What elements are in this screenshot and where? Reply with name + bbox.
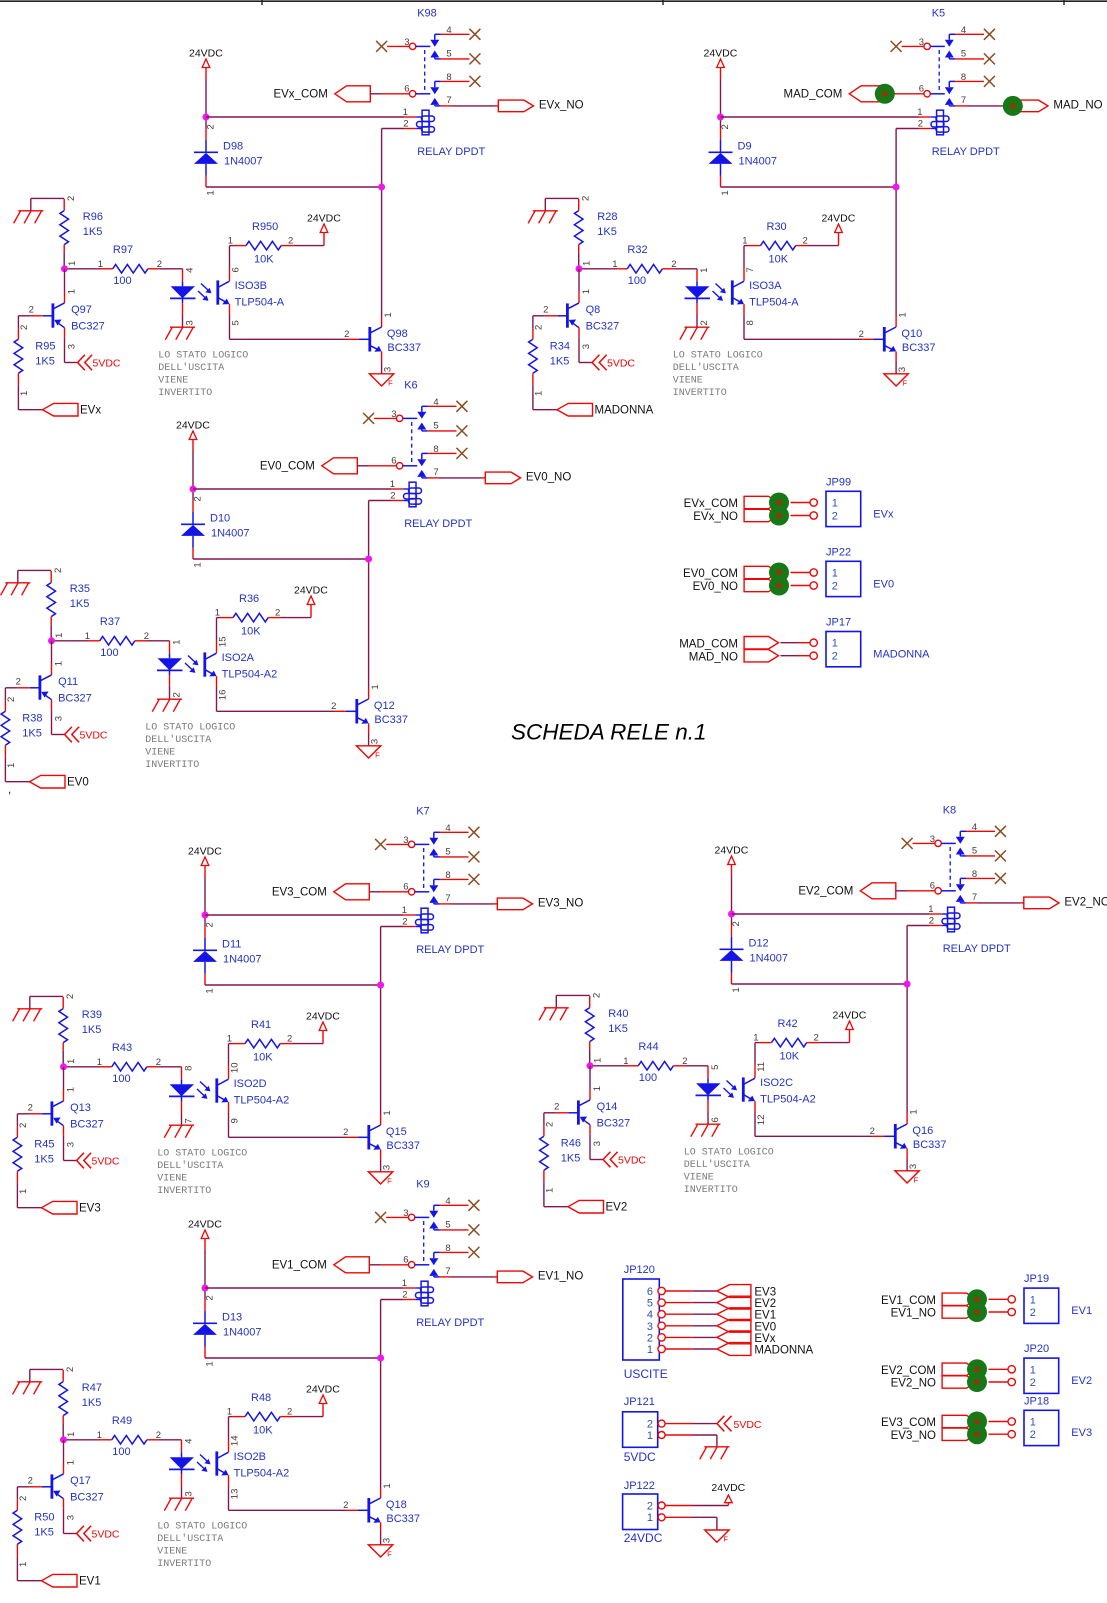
svg-text:BC337: BC337 [913, 1139, 947, 1151]
svg-text:100: 100 [639, 1072, 657, 1084]
svg-text:EVx: EVx [873, 509, 894, 521]
JP120 pin 1 circle [658, 1345, 665, 1352]
power 5VDC [77, 1153, 120, 1169]
pin 5 label [446, 49, 451, 60]
wire diode to collector node [721, 186, 897, 188]
svg-text:2: 2 [1030, 1307, 1036, 1319]
svg-text:ISO2D: ISO2D [234, 1078, 267, 1090]
svg-text:1: 1 [54, 661, 65, 666]
pin 1 label (10K) [227, 1407, 232, 1418]
svg-text:R35: R35 [70, 583, 90, 595]
svg-text:Q98: Q98 [387, 328, 408, 340]
svg-text:3: 3 [592, 1141, 603, 1146]
svg-text:EV3_COM: EV3_COM [881, 1417, 936, 1429]
svg-text:2: 2 [647, 1332, 653, 1344]
svg-text:3: 3 [383, 367, 394, 372]
no-connect X pin8 [469, 76, 480, 87]
svg-text:1N4007: 1N4007 [224, 156, 263, 168]
note text (logic inverted) [684, 1148, 774, 1197]
resistor R48 10K [233, 1392, 294, 1437]
transistor Q11 BC327 (PNP) [17, 675, 91, 705]
wire 10K to 24VDC [820, 1030, 850, 1043]
wire 1K5 to junction [62, 1424, 64, 1440]
port EV3_NO [891, 1428, 977, 1442]
pin 2 label (diode) [205, 922, 216, 927]
svg-text:2: 2 [832, 511, 838, 523]
pin 3 label (NPN emitter) [370, 739, 381, 744]
svg-text:1K5: 1K5 [70, 598, 90, 610]
svg-text:K9: K9 [416, 1179, 429, 1191]
pin 2 label (PNP base) [28, 1475, 33, 1486]
svg-text:1: 1 [382, 1110, 393, 1115]
svg-text:USCITE: USCITE [624, 1367, 668, 1381]
relay K6 contact pole A [396, 406, 427, 431]
junction node (base divider) [60, 1063, 67, 1070]
svg-text:R95: R95 [35, 341, 55, 353]
pin 1 label (NPN collector) [897, 312, 908, 317]
svg-text:1: 1 [66, 1432, 77, 1437]
svg-text:1: 1 [18, 1189, 29, 1194]
pin 1 label (1K5 bottom) [581, 261, 592, 266]
no-connect X pin3 [376, 41, 387, 52]
svg-text:5: 5 [710, 1065, 721, 1070]
svg-text:EVx_NO: EVx_NO [693, 511, 738, 523]
pin 1 label (100) [97, 1057, 102, 1068]
no-connect X pin5 [456, 425, 467, 436]
svg-text:10K: 10K [769, 254, 789, 266]
transistor Q16 BC337 (NPN) [872, 1114, 947, 1171]
junction node (collector) [893, 184, 900, 191]
pin 1 label (coil) [402, 1278, 407, 1289]
svg-text:5VDC: 5VDC [734, 1419, 762, 1431]
svg-text:TLP504-A2: TLP504-A2 [760, 1094, 816, 1106]
pin 1 label (10K) [753, 1033, 758, 1044]
svg-text:3: 3 [647, 1321, 653, 1333]
JP120 pin 4 circle [658, 1311, 665, 1318]
svg-text:1: 1 [67, 261, 78, 266]
svg-text:K8: K8 [943, 805, 956, 817]
svg-text:ISO2C: ISO2C [760, 1077, 793, 1089]
svg-text:D12: D12 [749, 938, 769, 950]
svg-text:2: 2 [682, 1056, 687, 1067]
svg-text:2: 2 [288, 236, 293, 247]
relay K8 contact pole A [935, 831, 966, 856]
relay K9 contact pole B [408, 1252, 439, 1277]
optocoupler ISO2A phototransistor [205, 652, 277, 681]
wire PNP emitter to 5VDC [65, 328, 78, 363]
relay K9 label [416, 1179, 429, 1191]
svg-text:R40: R40 [608, 1008, 628, 1020]
pin 2 label (NPN base) [343, 1127, 348, 1138]
note text (logic inverted) [673, 351, 763, 400]
svg-text:16: 16 [217, 690, 228, 701]
power 5VDC [78, 355, 121, 371]
wire junction to relay coil pin1 [206, 116, 422, 118]
svg-text:2: 2 [647, 1419, 653, 1431]
signal ground (LED) [165, 327, 195, 340]
power 5VDC [592, 355, 635, 371]
svg-text:R36: R36 [239, 593, 259, 605]
svg-text:2: 2 [671, 259, 676, 270]
junction node [728, 911, 735, 918]
svg-text:EV2_NO: EV2_NO [1064, 897, 1107, 909]
svg-text:,: , [8, 784, 11, 796]
pin 2 label (NPN base) [343, 1500, 348, 1511]
svg-text:DELL'USCITA: DELL'USCITA [673, 362, 739, 374]
wire 1K5 to junction [62, 1051, 64, 1067]
svg-text:Q17: Q17 [70, 1475, 91, 1487]
svg-text:5: 5 [446, 49, 451, 60]
resistor R43 100 [100, 1042, 159, 1085]
svg-text:1: 1 [228, 236, 233, 247]
JP22 pin 1 number [832, 568, 838, 580]
svg-text:MAD_NO: MAD_NO [689, 651, 738, 663]
optocoupler ISO3A phototransistor [732, 280, 799, 309]
power 24VDC (K7 block) [188, 846, 222, 866]
svg-text:2: 2 [803, 236, 808, 247]
JP121 pin 2 circle [658, 1420, 665, 1427]
label RELAY DPDT [416, 944, 484, 956]
svg-text:R96: R96 [83, 211, 103, 223]
svg-text:DELL'USCITA: DELL'USCITA [684, 1159, 750, 1171]
svg-text:EV3_NO: EV3_NO [891, 1430, 936, 1442]
resistor R40 1K5 [585, 996, 628, 1050]
pin 3 label [404, 37, 409, 48]
svg-text:EV2: EV2 [606, 1202, 628, 1214]
svg-text:24VDC: 24VDC [188, 846, 222, 858]
svg-text:MADONNA: MADONNA [873, 649, 930, 661]
svg-text:2: 2 [720, 124, 731, 129]
svg-text:EV1_NO: EV1_NO [538, 1271, 583, 1283]
svg-text:EV0: EV0 [67, 777, 89, 789]
transistor Q18 BC337 (NPN) [346, 1488, 421, 1545]
svg-text:VIENE: VIENE [157, 1174, 187, 1185]
JP121 pin 1 number [647, 1430, 653, 1442]
optocoupler ISO2B phototransistor [217, 1451, 289, 1480]
pin 1 label (coil) [403, 107, 408, 118]
pin 8 label [961, 72, 966, 83]
pin 3 label (LED cathode) [184, 320, 195, 325]
svg-text:1: 1 [227, 1407, 232, 1418]
svg-text:3: 3 [897, 367, 908, 372]
JP122 pin 2 circle [658, 1502, 665, 1509]
svg-text:1: 1 [66, 1087, 77, 1092]
svg-text:1N4007: 1N4007 [223, 1327, 262, 1339]
svg-text:EVx_COM: EVx_COM [273, 89, 327, 101]
relay K7 contact pole B [408, 879, 439, 904]
pin 5 label [972, 846, 977, 857]
transistor Q98 BC337 (NPN) [347, 317, 422, 374]
connector JP19 label [1024, 1273, 1049, 1285]
note text (logic inverted) [158, 351, 248, 400]
svg-text:7: 7 [445, 1266, 450, 1277]
pin 3 label (PNP emitter) [54, 716, 65, 721]
no-connect X pin5 [468, 851, 479, 862]
svg-text:D9: D9 [738, 141, 752, 153]
wire junction to 100 [65, 268, 101, 270]
power 24VDC (JP122) [711, 1482, 745, 1503]
optocoupler ISO3B LED [159, 269, 195, 327]
wire pin3 [386, 843, 408, 845]
wire port to JP20 pin 1 [989, 1368, 1009, 1370]
svg-text:2: 2 [1030, 1429, 1036, 1441]
no-connect X pin3 [902, 838, 913, 849]
wire Re to port [17, 1183, 41, 1207]
resistor R42 10K [759, 1018, 820, 1063]
wire opto emitter down [216, 676, 218, 711]
wire 24VDC to junction [192, 440, 194, 501]
label RELAY DPDT [943, 943, 1011, 955]
pin 1 label (NPN collector) [382, 1110, 393, 1115]
JP120 pin 1 number [647, 1344, 653, 1356]
pin 2 label (1K5 top) [66, 196, 77, 201]
wire JP120 pin 6 to port [665, 1290, 717, 1292]
port EV1 [42, 1574, 101, 1587]
svg-text:7: 7 [183, 1118, 194, 1123]
svg-text:2: 2 [65, 994, 76, 999]
wire diode to collector node [732, 983, 908, 985]
wire pin4 [955, 33, 984, 35]
svg-text:1K5: 1K5 [597, 226, 617, 238]
pin 2 label (NPN base) [870, 1126, 875, 1137]
pin 6 label [391, 456, 396, 467]
junction node (base divider) [576, 265, 583, 272]
svg-text:DELL'USCITA: DELL'USCITA [157, 1533, 223, 1545]
JP121 pin 1 circle [658, 1432, 665, 1439]
svg-text:2: 2 [287, 1407, 292, 1418]
port EV0 [30, 775, 89, 788]
pin 5 label [961, 49, 966, 60]
label USCITE [624, 1367, 668, 1381]
power 24VDC (K6 block) [176, 420, 210, 440]
svg-text:2: 2 [205, 1295, 216, 1300]
no-connect X pin4 [456, 401, 467, 412]
svg-text:EV0_COM: EV0_COM [260, 461, 315, 473]
pin 6 label [919, 84, 924, 95]
pin 1 label (Re bottom) [19, 391, 30, 396]
wire base to 1K5 [5, 688, 17, 701]
pin 2 label (PNP base) [554, 1101, 559, 1112]
JP120 pin 6 circle [658, 1287, 665, 1294]
pin 3 label (NPN emitter) [382, 1538, 393, 1543]
svg-text:1: 1 [647, 1430, 653, 1442]
resistor R30 10K [748, 221, 809, 266]
svg-text:JP17: JP17 [826, 617, 851, 629]
JP120 pin 5 circle [658, 1299, 665, 1306]
svg-text:Q16: Q16 [912, 1125, 933, 1137]
resistor R34 1K5 [529, 329, 570, 386]
wire COM port to pin6 [885, 93, 924, 95]
svg-text:10K: 10K [241, 626, 261, 638]
svg-text:MAD_COM: MAD_COM [679, 638, 738, 650]
no-connect X pin4 [995, 826, 1006, 837]
svg-text:2: 2 [814, 1033, 819, 1044]
junction node (base divider) [587, 1062, 594, 1069]
svg-text:6: 6 [230, 267, 241, 272]
optocoupler ISO2B LED [158, 1440, 194, 1498]
port EV3 [42, 1201, 101, 1214]
pin 1 label (10K) [227, 1034, 232, 1045]
relay K98 contact pole A [409, 34, 440, 59]
svg-text:EVx_COM: EVx_COM [684, 498, 738, 510]
pin 2 label (100) [156, 1430, 161, 1441]
relay K9 contact pole A [408, 1205, 439, 1230]
svg-text:1: 1 [533, 391, 544, 396]
port EV1 (JP120) [717, 1308, 776, 1322]
svg-text:2: 2 [344, 329, 349, 340]
svg-text:ISO2A: ISO2A [222, 652, 255, 664]
svg-text:24VDC: 24VDC [715, 845, 749, 857]
junction node (base divider) [61, 265, 68, 272]
note text (logic inverted) [145, 723, 235, 772]
label RELAY DPDT [416, 1317, 484, 1329]
svg-text:7: 7 [961, 95, 966, 106]
svg-text:24VDC: 24VDC [306, 1384, 340, 1396]
svg-text:2: 2 [554, 1101, 559, 1112]
wire diode to collector node [193, 558, 369, 560]
pin 8 label [446, 72, 451, 83]
pin 5 label (LED anode) [710, 1065, 721, 1070]
svg-text:INVERTITO: INVERTITO [145, 760, 199, 771]
no-connect X pin4 [468, 827, 479, 838]
svg-text:5VDC: 5VDC [93, 358, 121, 370]
svg-text:BC327: BC327 [70, 1119, 104, 1131]
svg-text:R38: R38 [22, 713, 42, 725]
svg-text:24VDC: 24VDC [704, 48, 738, 60]
pin 2 label (LED cathode) [171, 692, 182, 697]
pin 1 label (Re bottom) [533, 391, 544, 396]
relay K5 contact pole B [924, 81, 955, 106]
svg-text:2: 2 [832, 651, 838, 663]
pin 7 label [445, 1266, 450, 1277]
wire 1K5 to ground [545, 198, 578, 210]
no-connect X pin4 [468, 1200, 479, 1211]
svg-text:2: 2 [156, 1430, 161, 1441]
pin 2 label (PNP base) [543, 304, 548, 315]
relay K98 label [417, 8, 437, 20]
wire PNP emitter to 5VDC [64, 1126, 77, 1161]
wire 10K to 24VDC [282, 605, 312, 618]
svg-text:EV2_COM: EV2_COM [798, 886, 853, 898]
svg-text:LO STATO LOGICO: LO STATO LOGICO [684, 1148, 774, 1159]
port MAD_NO [1013, 100, 1103, 112]
transistor Q12 BC337 (NPN) [334, 689, 409, 746]
svg-text:2: 2 [65, 1367, 76, 1372]
net highlight dot (EV3_NO) [967, 1424, 987, 1444]
pin 3 label (LED cathode) [183, 1491, 194, 1496]
wire coil pin2 down to collector node [896, 129, 937, 317]
svg-text:2: 2 [29, 304, 34, 315]
JP19 pin 2 number [1030, 1307, 1036, 1319]
svg-text:BC337: BC337 [386, 1513, 420, 1525]
pin 6 label (LED cathode) [710, 1117, 721, 1122]
wire pin3 [374, 417, 396, 419]
pin 4 label (LED anode) [183, 1439, 194, 1444]
net label EV3 [1071, 1427, 1092, 1439]
JP18 pin 2 circle [1008, 1431, 1015, 1438]
port EVx [43, 403, 102, 416]
svg-text:1: 1 [897, 312, 908, 317]
svg-text:1: 1 [917, 107, 922, 118]
pin 2 label (1K5 top) [580, 196, 591, 201]
resistor R44 100 [626, 1041, 685, 1084]
svg-text:MADONNA: MADONNA [754, 1345, 813, 1357]
wire port to JP18 pin 2 [989, 1433, 1009, 1435]
port EV3_COM [881, 1415, 976, 1429]
svg-text:1K5: 1K5 [561, 1153, 581, 1165]
JP18 pin 1 circle [1008, 1418, 1015, 1425]
resistor R28 1K5 [574, 199, 617, 253]
pin 3 label [403, 835, 408, 846]
svg-text:EVx: EVx [80, 405, 101, 417]
svg-text:LO STATO LOGICO: LO STATO LOGICO [673, 351, 763, 362]
svg-text:3: 3 [382, 1165, 393, 1170]
pin 1 label (diode) [731, 987, 742, 992]
port EV2_NO [1024, 897, 1107, 909]
signal ground (LED) [691, 1124, 721, 1137]
wire pin3 [387, 45, 409, 47]
pin 2 label (PNP base) [16, 676, 21, 687]
svg-text:2: 2 [144, 631, 149, 642]
svg-text:F: F [723, 1535, 728, 1544]
opto light arrows [713, 284, 727, 301]
title SCHEDA RELE n.1 [511, 720, 707, 745]
svg-text:10K: 10K [253, 1425, 273, 1437]
svg-text:1: 1 [1030, 1294, 1036, 1306]
svg-text:LO STATO LOGICO: LO STATO LOGICO [145, 723, 235, 734]
svg-text:RELAY DPDT: RELAY DPDT [417, 146, 485, 158]
signal ground (LED) [152, 699, 182, 712]
svg-text:3: 3 [183, 1491, 194, 1496]
wire 1K5 to ground [556, 995, 589, 1007]
svg-text:3: 3 [908, 1164, 919, 1169]
resistor R50 1K5 [13, 1500, 54, 1557]
svg-text:EV0: EV0 [754, 1321, 776, 1333]
pin 4 label [445, 823, 450, 834]
power 24VDC (10K pullup) [306, 1384, 340, 1404]
svg-text:8: 8 [745, 320, 756, 325]
svg-text:JP20: JP20 [1024, 1343, 1049, 1355]
svg-text:15: 15 [217, 637, 228, 648]
svg-text:2: 2 [870, 1126, 875, 1137]
svg-text:R48: R48 [251, 1392, 271, 1404]
svg-text:EV1_COM: EV1_COM [272, 1260, 327, 1272]
svg-text:DELL'USCITA: DELL'USCITA [157, 1160, 223, 1172]
wire 1K5 to junction [589, 1050, 591, 1066]
pin 2 label (Re top) [533, 325, 544, 330]
svg-text:24VDC: 24VDC [711, 1482, 745, 1494]
wire pin4 [428, 405, 457, 407]
relay mechanical link (dashed) [411, 422, 413, 463]
pin 1 label (100) [85, 631, 90, 642]
wire Re to port [544, 1182, 568, 1206]
svg-text:2: 2 [331, 701, 336, 712]
pin 2 label (1K5 top) [65, 994, 76, 999]
relay K6 label [404, 380, 417, 392]
wire JP122 pin1 to ground [665, 1517, 717, 1530]
stray comma mark [8, 784, 11, 796]
svg-text:6: 6 [710, 1117, 721, 1122]
svg-text:EV0: EV0 [873, 579, 894, 591]
no-connect X pin5 [469, 53, 480, 64]
diode D13 1N4007 [193, 1299, 262, 1358]
power 24VDC (10K pullup) [307, 213, 341, 233]
svg-text:10K: 10K [254, 254, 274, 266]
svg-text:2: 2 [206, 124, 217, 129]
svg-text:1: 1 [67, 289, 78, 294]
pin 2 label (diode) [205, 1295, 216, 1300]
junction node [717, 114, 724, 121]
